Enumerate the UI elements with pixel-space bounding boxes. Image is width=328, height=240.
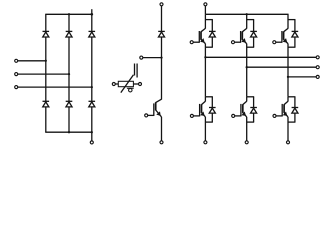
node junction phase W [287,76,289,78]
wire D9 anode lead [253,37,255,47]
wire bottom DC- rail of rectifier [45,131,92,133]
wire cell2 bottom cell top jog [247,97,254,108]
wire thermistor left lead [115,83,118,85]
wire cell3 top jog [288,20,295,32]
terminal inverter DC plus [204,3,207,6]
wire cell1 top feed [204,14,206,28]
wire D12 anode lead [247,113,254,122]
wire AC input L2 lead [18,73,69,75]
wire D11 anode lead [205,113,212,122]
node junction leg1 AC [45,60,47,62]
diode D8 antiparallel top [209,31,216,37]
wire thermistor right lead [133,83,138,85]
terminal thermistor left [112,83,115,86]
diode D11 antiparallel bottom [209,108,216,114]
wire Q1 gate lead [193,41,199,43]
wire cell2 top feed [246,14,248,28]
wire cell2 emitter lead to terminal [246,117,248,141]
transistor Q6 bottom IGBT [282,97,288,117]
node junction rectifier top rail leg2 [68,13,70,15]
wire thermistor diagonal stroke [121,75,134,93]
terminal thermistor right [139,83,142,86]
terminal cell2 emitter out [245,141,248,144]
terminal phase V [316,66,319,69]
transistor Q2 bottom IGBT [200,97,206,117]
wire thermistor pin lead a [134,64,136,76]
wire chopper mid vertical [161,37,163,100]
transistor Q3 top IGBT [241,28,247,43]
wire D10 anode lead [294,37,296,47]
wire top DC+ rail of rectifier [45,13,92,15]
node junction phase U [204,56,206,58]
wire cell1 bottom cell top jog [205,97,212,108]
wire cell1 bottom jog of top cell [205,46,212,48]
diode D7 chopper freewheel [158,31,165,37]
wire cell2 bottom jog of top cell [247,46,254,48]
wire thermistor pin lead b [136,64,138,78]
wire cell3 bottom jog of top cell [288,46,295,48]
transistor Q7 chopper IGBT [154,99,162,117]
diode D13 antiparallel bottom [292,108,299,114]
diode D10 antiparallel top [292,31,299,37]
terminal AC input L2 [15,73,18,76]
wire chopper emitter lead [161,117,163,141]
wire AC input L1 lead [18,60,46,62]
node junction rail cell2 [246,13,248,15]
wire cell3 top feed [287,14,289,28]
node junction rectifier bottom rail leg2 [68,131,70,133]
wire phase W output [288,76,316,78]
terminal Q1 gate [190,41,193,44]
terminal Q6 gate [273,114,276,117]
terminal Q2 gate [190,114,193,117]
wire D8 anode lead [211,37,213,47]
terminal rectifier DC minus [90,141,93,144]
transistor Q1 top IGBT [199,28,205,43]
diode D1 rectifier top [43,31,50,37]
node junction phase V [246,66,248,68]
wire Q5 gate lead [276,41,282,43]
wire rectifier leg 1 vertical [45,14,47,132]
wire cell2 emitter to phase node [246,44,248,97]
diode D5 rectifier top [89,31,96,37]
terminal AC input L3 [15,86,18,89]
terminal AC input L1 [15,59,18,62]
wire cell3 emitter to phase node [287,44,289,97]
wire Q2 gate lead [194,115,200,117]
wire cell3 emitter lead to terminal [287,117,289,141]
wire cell3 bottom cell top jog [288,97,295,108]
wire D13 anode lead [288,113,295,122]
terminal phase W [316,75,319,78]
node junction leg3 AC [91,86,93,88]
node theta temperature symbol [127,88,134,92]
diode D12 antiparallel bottom [250,108,257,114]
wire cell1 emitter lead to terminal [204,117,206,141]
node junction rectifier top rail leg3 [90,13,93,16]
terminal Q4 gate [232,114,235,117]
terminal chopper top [160,3,163,6]
terminal Q5 gate [273,41,276,44]
wire phase U output [205,56,316,58]
terminal Q3 gate [231,41,234,44]
node junction rectifier bottom rail leg3 [91,131,93,133]
diode D9 antiparallel top [250,31,257,37]
terminal phase U [316,56,319,59]
wire cell1 top jog [205,20,212,32]
resistor RT thermistor body [118,81,133,86]
wire Q3 gate lead [235,41,241,43]
diode D4 rectifier bottom [43,101,50,107]
terminal chopper bottom [160,141,163,144]
wire Q6 gate lead [276,115,282,117]
wire rectifier minus lead down [91,132,93,141]
terminal Q7 gate [145,114,148,117]
terminal cell1 emitter out [204,141,207,144]
node junction leg2 AC [68,73,70,75]
transistor Q4 bottom IGBT [241,97,247,117]
wire chopper top lead [161,6,163,32]
diode D3 rectifier top [66,31,73,37]
wire cell1 emitter to phase node [204,44,206,97]
wire cell2 top jog [247,20,254,32]
wire rectifier leg 2 vertical [68,14,70,132]
diode D6 rectifier bottom [66,101,73,107]
node junction chopper branch [160,56,162,58]
wire inverter DC plus lead [204,6,206,14]
wire chopper aux branch [143,57,162,59]
diode D2 rectifier bottom [89,101,96,107]
wire phase V output [247,66,316,68]
transistor Q5 top IGBT [282,28,288,43]
wire Q7 gate lead [148,114,154,116]
wire Q4 gate lead [235,115,241,117]
wire rectifier leg 3 vertical [91,9,93,132]
terminal chopper aux [140,56,143,59]
terminal cell3 emitter out [286,141,289,144]
wire inverter top DC rail [205,13,288,15]
wire AC input L3 lead [18,86,92,88]
